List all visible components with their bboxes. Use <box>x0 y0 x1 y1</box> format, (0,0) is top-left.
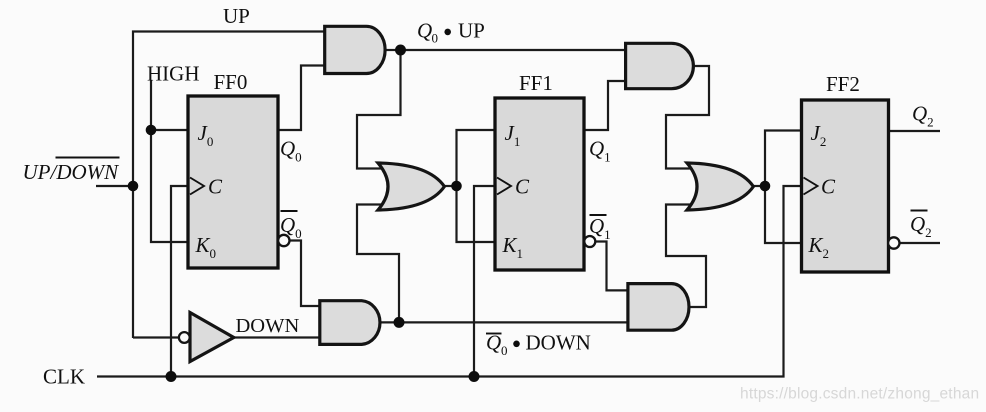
overline of Q0-bar <box>281 210 298 212</box>
junction UP/DOWN split <box>128 181 139 192</box>
wire Q0bar.DOWN line to AND gate G4 <box>399 321 630 323</box>
junction OR G5 output to J1 K1 <box>451 181 462 192</box>
svg-text:HIGH: HIGH <box>147 62 200 86</box>
junction CLK to FF0 <box>166 371 177 382</box>
inverter U1 input bubble <box>179 332 190 343</box>
svg-text:UP: UP <box>223 4 250 28</box>
wire Q2-bar output <box>898 242 940 244</box>
svg-text:CLK: CLK <box>43 365 85 389</box>
OR gate G5 (feeds J1 K1) <box>378 163 444 210</box>
svg-text:C: C <box>515 175 530 199</box>
wire Q0bar.DOWN branch up to OR gate G5 bottom input <box>357 205 399 323</box>
AND gate G3 (Q1 up carry) <box>626 43 694 88</box>
overline of Q0bar.DOWN label <box>486 333 502 335</box>
flip-flop FF2 body <box>802 100 889 272</box>
FF0 clock edge triangle <box>190 178 204 195</box>
svg-text:Q2: Q2 <box>910 212 932 240</box>
junction HIGH to J0 <box>146 125 157 136</box>
svg-text:C: C <box>821 175 836 199</box>
svg-text:Q1: Q1 <box>589 137 611 165</box>
svg-text:FF0: FF0 <box>214 70 248 94</box>
AND gate G2 (DOWN enable) <box>320 301 380 345</box>
FF0 Q-bar output bubble <box>278 235 289 246</box>
OR gate G6 (feeds J2 K2) <box>687 163 753 210</box>
wire J2 K2 feed vertical <box>765 131 803 244</box>
wire OR G5 output stub <box>444 185 457 187</box>
svg-text:FF1: FF1 <box>519 71 553 95</box>
wire UP/DOWN vertical riser and UP line to AND gate G1 <box>133 32 330 339</box>
wire Q0.UP branch down to OR gate G5 top input <box>357 50 401 169</box>
wire AND G2 output stub <box>381 321 399 323</box>
svg-text:Q0: Q0 <box>280 213 302 241</box>
svg-text:Q0DOWN: Q0DOWN <box>486 331 591 359</box>
wire J1 K1 feed vertical <box>457 130 498 242</box>
svg-text:DOWN: DOWN <box>236 315 300 337</box>
AND gate G1 (UP enable for FF0 carry) <box>325 26 385 73</box>
AND gate G4 (Q1-bar down carry) <box>628 284 689 331</box>
junction OR G6 output to J2 K2 <box>760 181 771 192</box>
svg-text:Q2: Q2 <box>912 102 934 130</box>
svg-text:https://blog.csdn.net/zhong_et: https://blog.csdn.net/zhong_ethan <box>740 386 979 403</box>
wire AND G4 output to OR gate G6 bottom input <box>666 205 706 308</box>
wire AND G3 output to OR gate G6 top input <box>666 66 709 169</box>
wire CLK distribution line up to FF2 C input <box>97 186 803 377</box>
wire Q1-bar output down to AND gate G4 top input <box>595 242 632 291</box>
bullet dot of Q0bar.DOWN label <box>513 341 520 348</box>
junction node Q0bar.DOWN <box>394 317 405 328</box>
svg-text:UP/DOWN: UP/DOWN <box>23 160 120 184</box>
svg-text:Q1: Q1 <box>589 214 611 242</box>
wire UP/DOWN to inverter input <box>133 336 180 338</box>
wire AND G1 output stub <box>385 49 401 51</box>
flip-flop FF0 body <box>188 96 278 268</box>
FF1 Q-bar output bubble <box>584 236 595 247</box>
wire Q0 output up to AND gate G1 lower input <box>278 66 328 131</box>
overline of Q2-bar <box>911 210 928 212</box>
junction CLK to FF1 <box>469 371 480 382</box>
FF1 clock edge triangle <box>497 178 511 195</box>
wire FF1 clock from C down to CLK line <box>474 186 497 377</box>
svg-text:C: C <box>208 175 223 199</box>
wire OR G6 output stub <box>753 185 765 187</box>
wire Q0.UP line to AND gate G3 <box>401 49 629 51</box>
FF2 clock edge triangle <box>804 178 818 195</box>
overline of Q1-bar <box>590 214 607 216</box>
overline of DOWN in UP/DOWN <box>56 157 120 159</box>
wire UP/DOWN input stub <box>96 185 133 187</box>
wire J0 input from HIGH line <box>151 129 192 131</box>
wire FF0 clock from C down to CLK line <box>171 186 192 377</box>
wire Q1 output up to AND gate G3 lower input <box>584 81 630 130</box>
junction node Q0.UP <box>395 45 406 56</box>
FF2 Q-bar output bubble <box>888 237 899 248</box>
svg-text:Q0: Q0 <box>280 137 302 165</box>
wire Q0-bar output down to AND gate G2 top input <box>289 241 324 307</box>
wire DOWN from inverter to AND gate G2 <box>234 336 324 338</box>
bullet dot of Q0.UP label <box>444 29 451 36</box>
flip-flop FF1 body <box>495 98 584 270</box>
svg-text:FF2: FF2 <box>826 72 860 96</box>
wire HIGH vertical to K0 input <box>151 80 192 242</box>
inverter U1 (UP/DOWN to DOWN) <box>190 313 234 362</box>
wire Q2 output <box>888 130 940 132</box>
